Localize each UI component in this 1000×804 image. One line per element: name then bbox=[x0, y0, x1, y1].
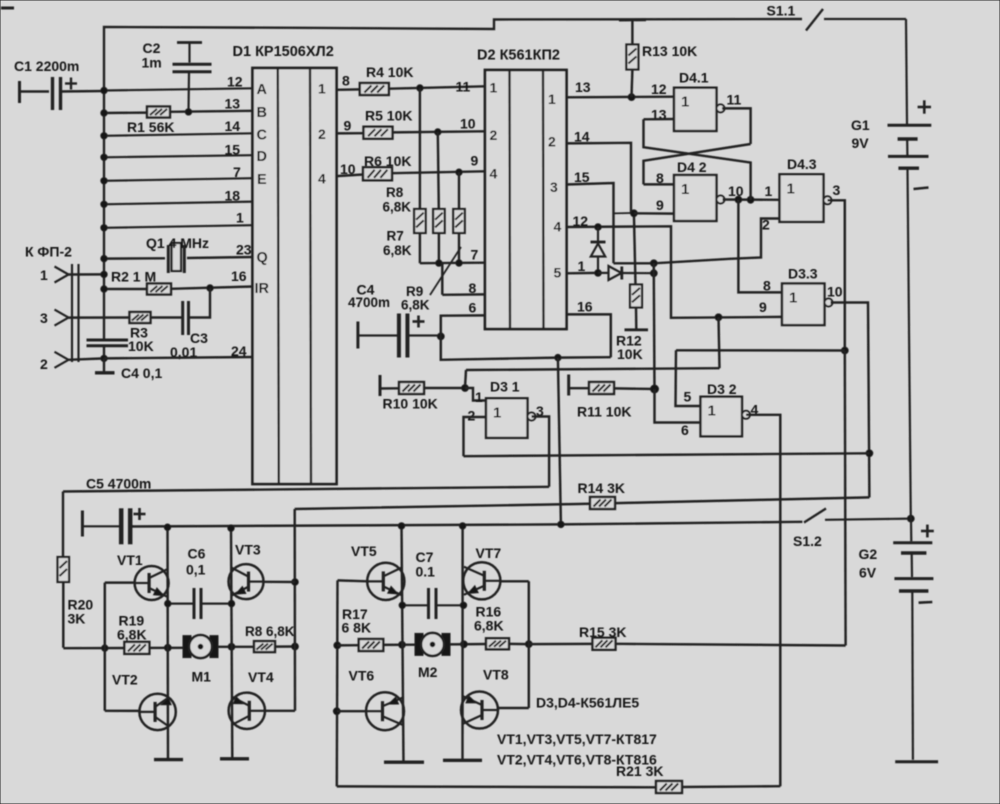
resistor R12 bbox=[630, 285, 642, 308]
svg-text:11: 11 bbox=[727, 92, 742, 108]
wire D2 pin7 row bbox=[420, 261, 485, 264]
svg-text:Q: Q bbox=[257, 250, 268, 266]
svg-text:1: 1 bbox=[40, 267, 48, 283]
wire feedback row bbox=[464, 453, 870, 456]
gate D3.2 bbox=[701, 397, 751, 437]
svg-text:D3 1: D3 1 bbox=[490, 379, 520, 395]
junction bbox=[101, 271, 107, 277]
junction VT6 base bbox=[333, 708, 340, 715]
resistor R6 bbox=[363, 167, 392, 180]
wire pin3 to R3 bbox=[69, 316, 130, 319]
wire R12 bottom bbox=[635, 308, 638, 330]
svg-text:1: 1 bbox=[681, 94, 689, 111]
svg-text:4: 4 bbox=[318, 171, 326, 187]
ground VT4 bbox=[220, 757, 249, 760]
wire D3.1 pin2 loop bbox=[464, 417, 487, 456]
resistor R20 bbox=[58, 557, 70, 582]
wire R21 row left bbox=[337, 785, 656, 788]
svg-text:Q1 4 MHz: Q1 4 MHz bbox=[146, 235, 209, 251]
junction bbox=[558, 521, 564, 527]
svg-text:D3.3: D3.3 bbox=[788, 266, 818, 282]
resistor R5 bbox=[364, 127, 393, 139]
wire C1 to bus bbox=[61, 90, 105, 93]
svg-text:A: A bbox=[257, 82, 268, 98]
resistor R16 bbox=[486, 638, 509, 649]
resistor R4 bbox=[360, 83, 389, 95]
junction M2 left bbox=[399, 641, 406, 648]
junction motor row 2 left bbox=[334, 642, 341, 649]
wire D4.2 pin9 bbox=[634, 212, 674, 215]
svg-text:11: 11 bbox=[456, 79, 471, 95]
svg-text:9: 9 bbox=[471, 153, 479, 169]
svg-text:D4.3: D4.3 bbox=[787, 156, 817, 172]
svg-text:G2: G2 bbox=[859, 546, 878, 562]
svg-text:S1.1: S1.1 bbox=[767, 3, 796, 19]
wire R2 to D1 pin16 IR bbox=[171, 287, 253, 289]
svg-text:9: 9 bbox=[759, 299, 767, 315]
svg-text:10K: 10K bbox=[617, 346, 643, 362]
junction bbox=[735, 196, 742, 203]
wire motor row 1 left bbox=[63, 647, 183, 650]
wire D4.3 output down bbox=[828, 200, 845, 350]
transistor VT5 bbox=[367, 563, 404, 600]
wire VDD riser to +6V row bbox=[558, 358, 561, 525]
capacitor C1 2200m bbox=[53, 77, 78, 110]
junction bbox=[650, 270, 657, 277]
connector body bbox=[72, 264, 79, 362]
svg-text:VT5: VT5 bbox=[351, 543, 377, 559]
svg-text:6,8K: 6,8K bbox=[383, 200, 412, 215]
svg-text:4700m: 4700m bbox=[348, 295, 390, 310]
resistor R3 bbox=[130, 312, 151, 323]
svg-text:R5 10K: R5 10K bbox=[365, 108, 412, 124]
junction bbox=[417, 85, 423, 91]
junction rail bbox=[459, 523, 465, 529]
svg-text:M2: M2 bbox=[418, 664, 438, 680]
svg-text:C1 2200m: C1 2200m bbox=[14, 58, 79, 74]
gate D3.3 bbox=[782, 284, 833, 326]
junction bbox=[436, 260, 442, 266]
junction M1 left bbox=[164, 644, 171, 651]
svg-text:5: 5 bbox=[554, 265, 562, 281]
svg-text:C6: C6 bbox=[188, 546, 206, 562]
wire D2 pin12 to D3.3 pin9 bbox=[567, 226, 783, 317]
junction bbox=[525, 641, 532, 648]
wire VT1 base bbox=[105, 581, 135, 583]
wire D4.3 output long vertical bbox=[844, 351, 847, 646]
wire VT8 base bbox=[498, 707, 529, 709]
resistor R8 bbox=[433, 209, 445, 233]
wire +6V row to S1.2 bbox=[130, 522, 803, 527]
wire R8 to base line bbox=[275, 645, 295, 648]
wire VT7 base bbox=[501, 580, 529, 582]
wire D4.2 output to D4.3 bbox=[723, 198, 781, 201]
wire M2 to R16 bbox=[450, 643, 486, 646]
junction bbox=[101, 87, 107, 93]
junction C2 bottom bbox=[185, 109, 191, 115]
ground bar bbox=[95, 371, 115, 374]
junction C7 left bbox=[399, 602, 405, 608]
wire D3.1 output down bbox=[532, 417, 550, 487]
svg-text:R4 10K: R4 10K bbox=[366, 64, 413, 80]
wire bus to R2 bbox=[104, 288, 147, 290]
wire to R9 bbox=[458, 172, 460, 209]
junction bbox=[435, 129, 441, 135]
wire to R8 bbox=[438, 132, 439, 209]
wire D3.2 output down to R21 row bbox=[746, 415, 780, 786]
wire line B bbox=[466, 368, 720, 370]
connector pin 2 arrow bbox=[55, 352, 69, 368]
junction diode bottom bbox=[595, 270, 602, 277]
wire bus to D1 row 0 bbox=[104, 88, 253, 90]
wire R1 to D1 pin13 bbox=[170, 111, 253, 112]
R10 left terminal bbox=[379, 375, 382, 396]
wire VT5 VT6 base drop bbox=[336, 580, 339, 786]
wire R10 lead bbox=[380, 387, 399, 390]
resistor R7 bbox=[414, 209, 426, 233]
wire R5 to D2 pin10 bbox=[393, 131, 486, 132]
mark corner artifact bbox=[1, 7, 14, 10]
wire to R20 bbox=[62, 492, 64, 558]
wire R6 to D2 pin9 bbox=[392, 171, 485, 173]
resistor R13 bbox=[626, 45, 638, 70]
junction R13 bbox=[628, 94, 635, 101]
wire D1 pin10 to R6 bbox=[337, 175, 364, 177]
svg-text:8: 8 bbox=[469, 280, 477, 296]
svg-text:12: 12 bbox=[227, 74, 243, 90]
wire R13 to pin12 row bbox=[630, 70, 633, 98]
junction bbox=[747, 196, 754, 203]
svg-text:1: 1 bbox=[787, 180, 795, 197]
svg-text:6: 6 bbox=[469, 300, 477, 316]
svg-text:6: 6 bbox=[681, 422, 689, 438]
wire to R17 bbox=[337, 644, 359, 647]
junction C6 left bbox=[165, 600, 171, 606]
svg-text:R6 10K: R6 10K bbox=[364, 153, 411, 169]
wire R15 to D4.3 net bbox=[616, 644, 846, 646]
svg-text:10: 10 bbox=[460, 116, 476, 132]
motor M2 bbox=[415, 633, 450, 656]
wire D4.2 pin8 bbox=[644, 183, 675, 185]
transistor VT8 bbox=[461, 692, 498, 729]
svg-text:E: E bbox=[257, 172, 267, 188]
svg-text:R1 56K: R1 56K bbox=[127, 119, 174, 135]
wire VT1 VT2 vertical bbox=[166, 527, 169, 759]
wire VT5 VT6 vertical bbox=[402, 526, 404, 762]
junction bbox=[101, 110, 107, 116]
wire C3 to IR node bbox=[189, 288, 211, 318]
svg-text:6,8K: 6,8K bbox=[383, 243, 412, 258]
wire D2 pin8 row bbox=[442, 293, 485, 296]
svg-text:0,1: 0,1 bbox=[186, 562, 206, 578]
wire R14 row bbox=[295, 497, 870, 509]
svg-text:10: 10 bbox=[827, 284, 843, 300]
junction bbox=[101, 178, 107, 184]
svg-text:1: 1 bbox=[681, 181, 689, 198]
junction C6 right bbox=[228, 600, 234, 606]
svg-text:4: 4 bbox=[554, 219, 562, 235]
wire D4.1 output bbox=[722, 108, 751, 144]
wire Q1 to D1 pin23 bbox=[187, 257, 253, 258]
junction bbox=[631, 210, 638, 217]
wire X coupling A bbox=[644, 144, 751, 184]
wire R21 row right bbox=[682, 785, 780, 788]
junction bbox=[101, 286, 107, 292]
wire bus to D1 pin24 bbox=[104, 357, 253, 358]
wire D1 pin8 to R4 bbox=[337, 88, 360, 91]
wire to D4.3 pin2 bbox=[614, 219, 781, 264]
svg-text:VT6: VT6 bbox=[349, 668, 375, 684]
svg-text:7: 7 bbox=[233, 164, 241, 180]
wire bus to Q1 bbox=[104, 257, 165, 260]
wire R8 bottom bbox=[438, 233, 440, 263]
capacitor C4 0,1 bbox=[87, 340, 129, 346]
svg-text:R10 10K: R10 10K bbox=[383, 396, 438, 412]
junction diode top bbox=[595, 224, 602, 231]
wire pin2 to bus bbox=[69, 358, 105, 359]
svg-text:1: 1 bbox=[236, 210, 244, 226]
svg-text:1: 1 bbox=[475, 389, 483, 405]
ground VT2 bbox=[154, 758, 183, 761]
battery G1 9V bbox=[888, 19, 932, 519]
wire R3 to C3 bbox=[151, 316, 183, 318]
wire R11 lead bbox=[569, 387, 590, 389]
svg-text:VT7: VT7 bbox=[476, 545, 502, 561]
junction VT3 base bbox=[292, 579, 299, 586]
svg-text:D3,D4-К561ЛЕ5: D3,D4-К561ЛЕ5 bbox=[536, 695, 639, 711]
junction bbox=[101, 355, 107, 361]
wire pin15 tap bbox=[614, 212, 632, 214]
svg-text:D4 2: D4 2 bbox=[677, 159, 707, 175]
wire bus to D1 row 6 bbox=[104, 225, 253, 228]
transistor VT1 bbox=[135, 566, 169, 600]
gate D4.3 bbox=[780, 174, 832, 222]
wire VT3 VT4 base drop bbox=[293, 509, 296, 711]
svg-text:16: 16 bbox=[231, 268, 247, 284]
IC D1 KR1506HL2 bbox=[253, 68, 337, 484]
svg-text:C4 0,1: C4 0,1 bbox=[121, 365, 162, 381]
svg-text:C5 4700m: C5 4700m bbox=[86, 476, 151, 492]
svg-text:R13 10K: R13 10K bbox=[642, 43, 697, 59]
svg-text:13: 13 bbox=[575, 79, 591, 95]
junction G2 plus bbox=[907, 515, 914, 522]
wire R7 bottom bbox=[419, 233, 421, 263]
wire bus to D1 row 5 bbox=[104, 202, 253, 205]
svg-text:2: 2 bbox=[548, 134, 556, 150]
capacitor C6 0,1 bbox=[168, 588, 232, 619]
svg-text:6 8K: 6 8K bbox=[342, 620, 372, 636]
gate D3.1 bbox=[486, 398, 536, 438]
wire bus to R1 bbox=[104, 111, 147, 114]
junction C4 node bbox=[437, 333, 444, 340]
switch S1.1 bbox=[806, 9, 906, 31]
junction bbox=[841, 347, 848, 354]
wire pin8 riser bbox=[441, 263, 443, 295]
svg-text:3: 3 bbox=[833, 182, 841, 198]
svg-text:9V: 9V bbox=[852, 135, 870, 151]
svg-text:1: 1 bbox=[708, 403, 716, 420]
svg-text:24: 24 bbox=[231, 343, 247, 359]
svg-text:IR: IR bbox=[255, 281, 270, 297]
IC D2 K561KP2 bbox=[485, 70, 567, 329]
svg-text:15: 15 bbox=[574, 169, 590, 185]
connector pin 1 arrow bbox=[55, 267, 69, 283]
wire to ground bbox=[103, 358, 105, 372]
svg-text:6,8K: 6,8K bbox=[474, 618, 504, 634]
wire to D3.1 pin1 bbox=[465, 388, 486, 401]
svg-text:VT3: VT3 bbox=[235, 542, 261, 558]
svg-text:S1.2: S1.2 bbox=[793, 533, 822, 549]
wire D2 pin6 to C4 node bbox=[441, 315, 485, 336]
svg-text:1m: 1m bbox=[142, 55, 162, 71]
resistor R15 bbox=[593, 638, 616, 650]
svg-text:1: 1 bbox=[765, 183, 773, 199]
resistor R19 bbox=[124, 642, 149, 654]
R12 bottom bar bbox=[625, 328, 649, 331]
svg-text:6V: 6V bbox=[859, 565, 877, 581]
wire R20 to motor row bbox=[62, 582, 64, 648]
wire R16 to base line bbox=[509, 643, 529, 646]
wire R11 to node bbox=[614, 387, 655, 390]
wire R10 to node bbox=[424, 387, 465, 389]
wire bus to D1 row 2 bbox=[104, 133, 253, 136]
wire D2 pin1 row bbox=[567, 272, 599, 275]
svg-text:1: 1 bbox=[493, 404, 501, 421]
wire riser to pin9 row bbox=[719, 317, 720, 368]
junction bbox=[555, 354, 561, 360]
wire to D3.2 pin6 bbox=[655, 389, 701, 423]
resistor R8 bridge bbox=[254, 641, 275, 652]
svg-text:8: 8 bbox=[763, 278, 771, 294]
svg-text:R7: R7 bbox=[387, 229, 404, 244]
transistor VT7 bbox=[463, 562, 500, 599]
wire D3.3 output down bbox=[831, 303, 870, 498]
svg-text:3: 3 bbox=[550, 179, 558, 195]
svg-text:4: 4 bbox=[490, 166, 498, 182]
wire D2 pin15 drop bbox=[567, 183, 614, 263]
wire VT7 VT8 base drop bbox=[528, 581, 530, 708]
junction bbox=[101, 255, 107, 261]
wire D1 pin9 to R5 bbox=[337, 132, 364, 135]
resistor R21 bbox=[656, 781, 682, 793]
svg-text:D2 К561КП2: D2 К561КП2 bbox=[477, 48, 560, 64]
svg-text:2: 2 bbox=[318, 126, 326, 142]
svg-text:R15 3K: R15 3K bbox=[579, 624, 626, 640]
svg-text:12: 12 bbox=[651, 81, 667, 97]
battery G2 6V bbox=[893, 519, 938, 762]
svg-text:M1: M1 bbox=[192, 669, 212, 685]
svg-text:D3 2: D3 2 bbox=[707, 381, 737, 397]
svg-text:2: 2 bbox=[762, 217, 770, 233]
wire bus to D1 row 3 bbox=[104, 155, 253, 157]
wire drop to D3.2 pin5 bbox=[676, 350, 701, 406]
svg-text:VT1: VT1 bbox=[117, 552, 143, 568]
svg-text:16: 16 bbox=[577, 299, 593, 315]
svg-text:VT2,VT4,VT6,VT8-КТ816: VT2,VT4,VT6,VT8-КТ816 bbox=[497, 752, 657, 768]
svg-text:G1: G1 bbox=[851, 117, 870, 133]
junction bbox=[292, 643, 299, 650]
svg-text:14: 14 bbox=[225, 118, 241, 134]
ground VT6 bbox=[384, 761, 424, 764]
wire line B drop bbox=[465, 370, 466, 388]
junction rail bbox=[228, 525, 234, 531]
wire line A VDD net bbox=[441, 336, 611, 359]
svg-text:R11 10K: R11 10K bbox=[577, 404, 631, 420]
wire stub between junctions bbox=[653, 263, 655, 273]
crystal Q1 4MHz bbox=[168, 243, 184, 273]
svg-text:VT2: VT2 bbox=[112, 672, 138, 688]
svg-text:R14 3K: R14 3K bbox=[578, 480, 625, 496]
svg-text:6,8K: 6,8K bbox=[117, 627, 147, 643]
resistor R1 bbox=[147, 107, 170, 118]
capacitor C7 0,1 bbox=[402, 588, 463, 619]
wire VT7 VT8 vertical bbox=[461, 526, 464, 760]
transistor VT3 bbox=[229, 564, 264, 599]
svg-text:23: 23 bbox=[236, 242, 252, 258]
junction feedback bbox=[866, 450, 873, 457]
wire D4.1 pin13 bbox=[644, 118, 675, 121]
resistor R11 bbox=[589, 382, 614, 394]
svg-text:VT4: VT4 bbox=[248, 669, 274, 685]
svg-text:1: 1 bbox=[578, 258, 586, 274]
wire VT4 base bbox=[265, 710, 295, 712]
wire D2 pin16 loop bbox=[567, 314, 611, 357]
wire VT3 base bbox=[264, 581, 296, 584]
junction C7 right bbox=[460, 602, 466, 608]
wire C5 row bbox=[63, 487, 549, 492]
junction bbox=[101, 225, 107, 231]
wire to R7 bbox=[419, 88, 421, 209]
svg-text:18: 18 bbox=[225, 188, 241, 204]
junction rail bbox=[398, 523, 404, 529]
wire D2 pin13 to D4.1 bbox=[567, 95, 675, 98]
wire bus below C4 bbox=[103, 346, 105, 359]
junction bbox=[101, 201, 107, 207]
leader R9 bbox=[430, 247, 461, 295]
R11 left terminal bbox=[567, 375, 570, 396]
svg-text:D: D bbox=[257, 149, 267, 165]
switch S1.2 bbox=[804, 509, 911, 523]
resistor R14 bbox=[590, 497, 615, 509]
svg-text:7: 7 bbox=[471, 247, 479, 263]
svg-text:1: 1 bbox=[789, 290, 797, 307]
junction R11 node bbox=[651, 385, 659, 393]
resistor R17 bbox=[359, 639, 384, 651]
wire VT5 base top bbox=[338, 579, 368, 582]
wire R13 top bbox=[631, 20, 633, 45]
junction base drop bbox=[102, 645, 108, 651]
wire VT1 VT2 base drop bbox=[104, 583, 106, 711]
diode VD1 bbox=[591, 227, 606, 273]
svg-text:3K: 3K bbox=[68, 611, 86, 627]
wire to R12 bbox=[634, 213, 636, 284]
junction bbox=[456, 260, 462, 266]
transistor VT4 bbox=[229, 693, 265, 729]
wire D4.2 out to D3.3 pin8 bbox=[738, 200, 782, 293]
capacitor C2 1m bbox=[173, 43, 212, 113]
svg-text:2: 2 bbox=[468, 408, 476, 424]
svg-text:2: 2 bbox=[490, 127, 498, 143]
svg-text:2: 2 bbox=[40, 356, 48, 372]
gate D4.2 bbox=[674, 175, 725, 221]
junction bbox=[650, 260, 657, 267]
svg-text:3: 3 bbox=[40, 310, 48, 326]
junction M2 right bbox=[461, 641, 468, 648]
svg-text:10K: 10K bbox=[128, 338, 154, 354]
motor M1 bbox=[183, 635, 218, 658]
wire R9 bottom bbox=[458, 233, 460, 263]
svg-text:15: 15 bbox=[225, 142, 241, 158]
